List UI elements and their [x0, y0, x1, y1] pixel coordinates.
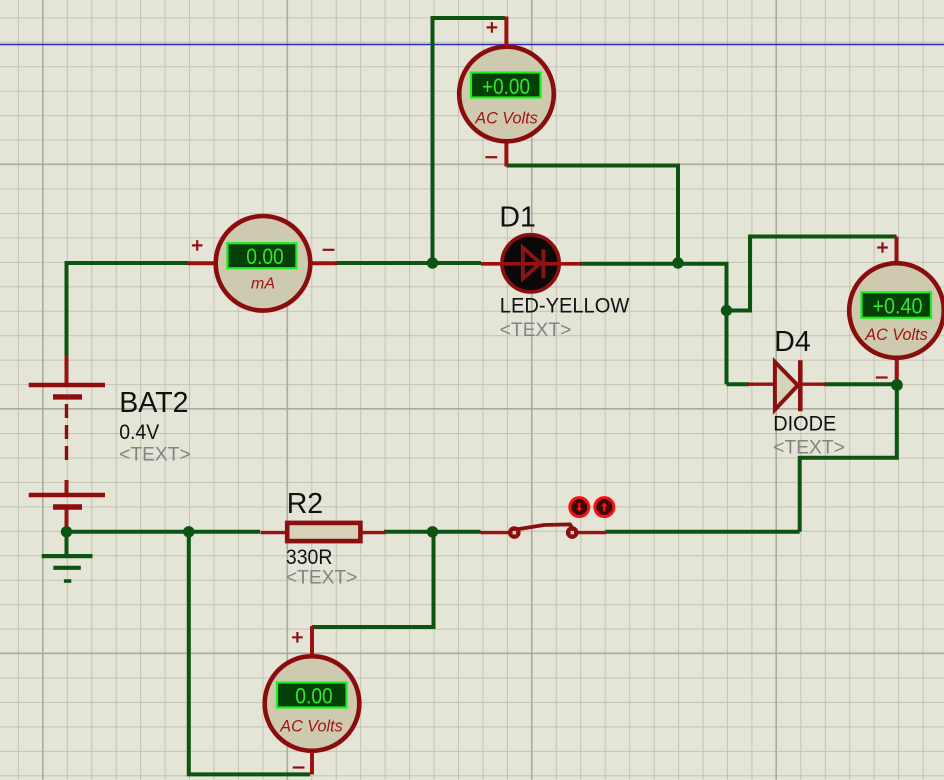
ammeter + label: [192, 240, 203, 251]
blue sheet border line: [0, 44, 944, 46]
node: U2 - junction: [891, 379, 903, 391]
voltmeter U1 - label: [485, 156, 497, 158]
svg-text:<TEXT>: <TEXT>: [500, 319, 572, 341]
diode D4 cathode bar: [798, 360, 803, 411]
ground stem: [65, 532, 69, 554]
svg-text:R2: R2: [287, 488, 323, 520]
ground bar 3: [64, 579, 71, 583]
svg-text:D1: D1: [499, 201, 535, 233]
switch toggle button down: [570, 498, 589, 517]
voltmeter U3 + terminal: [310, 626, 314, 657]
svg-text:<TEXT>: <TEXT>: [286, 567, 358, 589]
wire: battery top to ammeter +: [67, 263, 189, 358]
voltmeter U2 - terminal: [895, 358, 899, 385]
resistor R2 body: [287, 523, 360, 541]
switch left lead: [481, 531, 511, 534]
ammeter left terminal: [188, 261, 217, 265]
battery BAT2 plate 1 short: [53, 394, 82, 399]
node: LED cathode junction: [672, 257, 683, 268]
ammeter - label: [323, 249, 335, 251]
ammeter right terminal: [310, 261, 337, 265]
resistor R2 right lead: [361, 531, 386, 534]
battery BAT2 dashed link: [65, 404, 68, 466]
diode D4 anode lead: [748, 383, 776, 386]
wire: voltmeter U3 + up to node B: [312, 532, 434, 627]
svg-text:0.00: 0.00: [246, 244, 284, 269]
ground bar 1: [42, 554, 93, 558]
node B junction: [427, 526, 438, 537]
battery BAT2 plate 2 long: [29, 493, 105, 498]
svg-text:+0.00: +0.00: [482, 74, 530, 99]
voltmeter U3 - terminal: [310, 751, 314, 775]
wire: ammeter - to LED anode: [337, 261, 482, 265]
switch contact 2: [566, 526, 579, 539]
wire: switch left to node B: [384, 530, 481, 534]
diode D4 cathode lead: [801, 383, 825, 386]
voltmeter U1 LCD: [471, 73, 541, 98]
LED D1 triangle: [523, 248, 541, 279]
voltmeter U3 - label: [293, 766, 305, 768]
voltmeter U2 + terminal: [895, 237, 899, 265]
svg-text:<TEXT>: <TEXT>: [773, 437, 845, 459]
switch right lead: [577, 531, 606, 534]
wire: voltmeter U1 - down to LED cathode node: [506, 166, 678, 264]
battery BAT2 top lead: [65, 356, 69, 384]
ammeter LCD: [227, 243, 296, 268]
wire: node A up and over to voltmeter U1 +: [433, 18, 506, 263]
wire: LED cathode to right branch: [580, 264, 727, 385]
svg-text:0.00: 0.00: [295, 684, 333, 709]
voltmeter U3 + label: [292, 632, 303, 643]
svg-text:D4: D4: [774, 326, 811, 358]
voltmeter U2 + label: [877, 242, 888, 253]
LED D1 axis lead: [481, 262, 582, 266]
battery BAT2 lower lead top: [65, 480, 69, 493]
LED D1 body: [502, 235, 559, 292]
svg-text:AC Volts: AC Volts: [864, 325, 928, 344]
wire: branch to voltmeter U2 +: [727, 237, 897, 311]
switch lever: [515, 524, 572, 529]
voltmeter U1 body: [459, 47, 554, 142]
diode D4 triangle: [775, 362, 798, 410]
voltmeter U2 LCD: [862, 292, 932, 318]
switch contact 1: [508, 526, 521, 539]
voltmeter U1 + terminal: [504, 17, 508, 49]
svg-text:AC Volts: AC Volts: [279, 717, 343, 736]
wire: R2 left to battery bottom node: [67, 530, 261, 534]
voltmeter U3 body: [265, 656, 360, 751]
wire: switch right lead: [606, 530, 800, 534]
battery BAT2 bottom lead: [65, 509, 69, 532]
battery BAT2 plate 2 short: [53, 504, 82, 509]
voltmeter U1 + label: [487, 22, 498, 33]
svg-text:0.4V: 0.4V: [119, 421, 159, 444]
wire: U2 - node down and around to switch: [800, 384, 897, 532]
voltmeter U2 body: [849, 263, 944, 358]
svg-text:330R: 330R: [286, 546, 333, 569]
resistor R2 left lead: [261, 531, 288, 534]
node: U2 + branch junction: [721, 305, 732, 316]
battery BAT2 plate 1 long: [29, 383, 105, 388]
node C junction: [183, 526, 194, 537]
wire: node C down to voltmeter U3 -: [189, 532, 310, 775]
svg-text:mA: mA: [251, 276, 275, 293]
svg-text:+0.40: +0.40: [873, 293, 923, 318]
voltmeter U1 - terminal: [504, 141, 508, 167]
node: battery bottom junction: [61, 526, 72, 537]
switch toggle button up: [595, 498, 614, 517]
ammeter body: [216, 216, 311, 311]
node A junction: [427, 257, 438, 268]
ground bar 2: [53, 566, 81, 570]
voltmeter U3 LCD: [277, 683, 347, 708]
svg-text:AC Volts: AC Volts: [474, 109, 538, 128]
wire: D4 cathode to voltmeter U2 - node: [824, 382, 897, 386]
svg-text:<TEXT>: <TEXT>: [119, 444, 191, 466]
svg-text:BAT2: BAT2: [119, 387, 188, 419]
wire: D4 anode feed: [727, 382, 750, 386]
svg-text:LED-YELLOW: LED-YELLOW: [500, 295, 630, 318]
svg-text:DIODE: DIODE: [773, 412, 836, 435]
voltmeter U2 - label: [876, 376, 888, 378]
LED D1 cathode bar: [542, 249, 546, 278]
